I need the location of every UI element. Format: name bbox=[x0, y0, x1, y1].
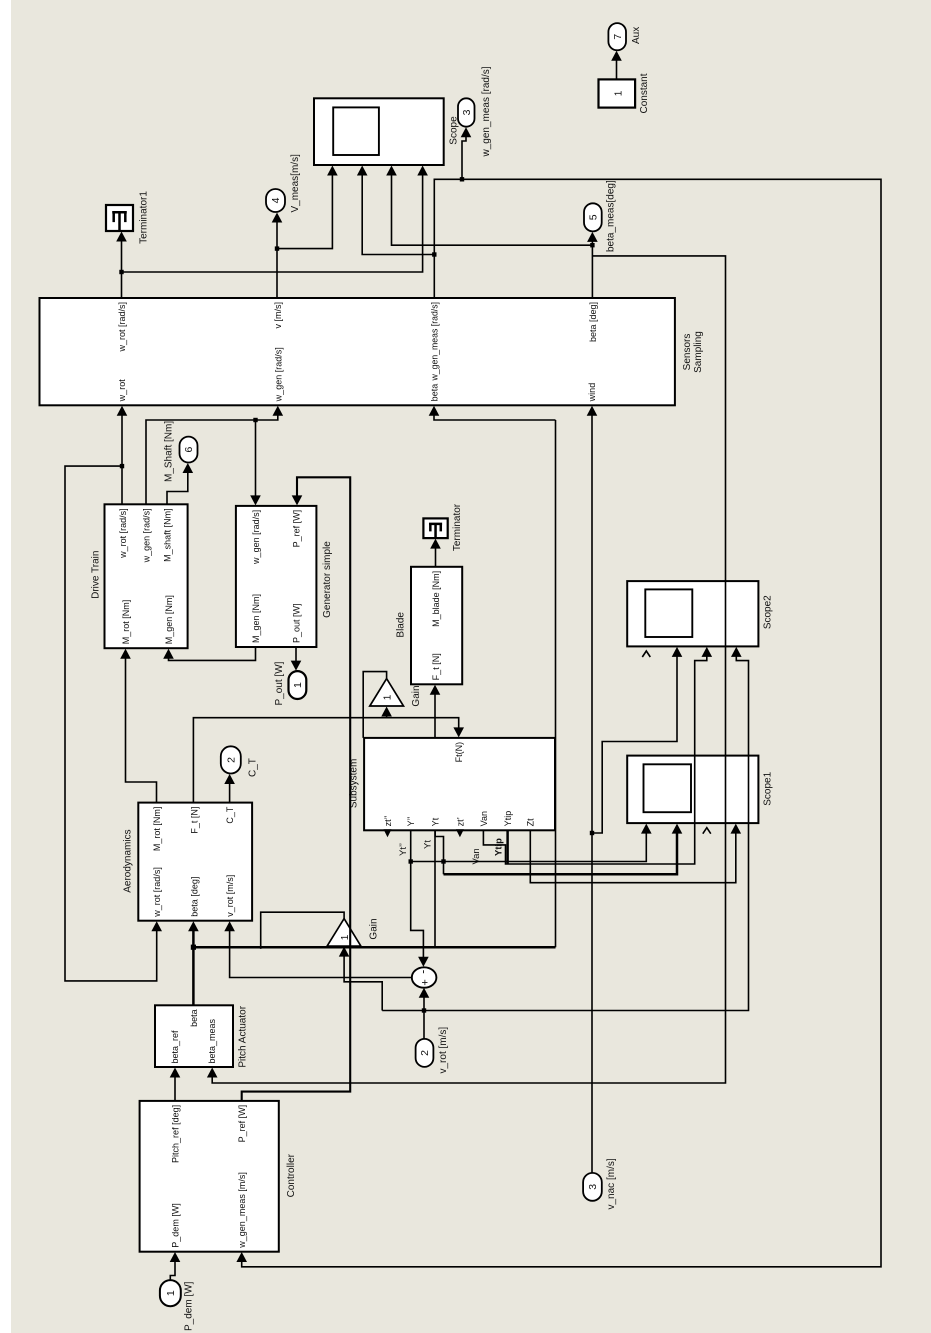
svg-text:M_rot [Nm]: M_rot [Nm] bbox=[152, 807, 162, 852]
svg-text:w_gen_meas [m/s]: w_gen_meas [m/s] bbox=[237, 1172, 247, 1249]
wire w_rot to Terminator1 bbox=[121, 236, 123, 299]
wire v_rot to gain bbox=[344, 951, 382, 1011]
arrowhead w_gen gen bbox=[250, 495, 261, 505]
svg-text:Ytip: Ytip bbox=[503, 811, 513, 827]
wire Ytip bold to scope1 in2 bbox=[444, 828, 678, 875]
block Blade bbox=[411, 567, 462, 685]
svg-text:w_gen_meas [rad/s]: w_gen_meas [rad/s] bbox=[430, 302, 440, 381]
svg-text:w_rot: w_rot bbox=[117, 379, 127, 403]
wire w_rot to Sensors bbox=[121, 410, 123, 504]
scope2 screen bbox=[645, 589, 692, 637]
svg-text:w_gen [rad/s]: w_gen [rad/s] bbox=[141, 508, 151, 563]
wire Zt bbox=[530, 828, 736, 883]
svg-text:Yt: Yt bbox=[423, 840, 434, 849]
svg-text:Pitch_ref [deg]: Pitch_ref [deg] bbox=[170, 1105, 180, 1163]
wire F_t net bbox=[193, 718, 458, 803]
white page margin strip bbox=[0, 0, 11, 1333]
arrowhead vrot aero bbox=[224, 921, 235, 931]
wire w_rot feedback loop bbox=[65, 466, 157, 981]
wire Constant to Aux bbox=[616, 55, 618, 80]
block Sensors Sampling bbox=[40, 298, 675, 405]
svg-text:Controller: Controller bbox=[286, 1153, 297, 1197]
arrowhead Zt scope1 bbox=[731, 824, 742, 834]
wire v_rot to scope2 bbox=[382, 651, 748, 1011]
junction w_rot loop bbox=[120, 464, 124, 468]
wire beta_meas to pitch bbox=[212, 256, 725, 1083]
svg-text:beta_meas[deg]: beta_meas[deg] bbox=[606, 180, 617, 252]
wire wind to scope2 bbox=[592, 651, 677, 833]
arrowhead port5 bbox=[587, 232, 598, 242]
svg-text:M_Shaft [Nm]: M_Shaft [Nm] bbox=[164, 421, 175, 482]
svg-text:Terminator: Terminator bbox=[452, 503, 463, 551]
unconnected Scope2 in1 bbox=[642, 651, 650, 657]
svg-text:w_gen_meas [rad/s]: w_gen_meas [rad/s] bbox=[481, 66, 492, 157]
junction beta bbox=[191, 945, 196, 950]
arrowhead port4 bbox=[272, 213, 283, 223]
svg-text:w_rot [rad/s]: w_rot [rad/s] bbox=[117, 302, 127, 353]
svg-text:w_rot [rad/s]: w_rot [rad/s] bbox=[152, 867, 162, 918]
wire beta to sensors underlay bbox=[555, 420, 557, 947]
svg-text:7: 7 bbox=[612, 34, 624, 40]
block Scope1 bbox=[627, 756, 758, 824]
svg-text:4: 4 bbox=[270, 197, 282, 203]
arrowhead beta sensors bbox=[429, 406, 440, 416]
wire gain2 output bbox=[261, 912, 344, 949]
svg-text:Pitch Actuator: Pitch Actuator bbox=[237, 1005, 248, 1067]
svg-text:Constant: Constant bbox=[639, 73, 650, 113]
inport 3 v_nac bbox=[583, 1173, 602, 1201]
svg-text:Generator simple: Generator simple bbox=[322, 541, 333, 618]
outport 3 w_gen_meas bbox=[458, 98, 475, 126]
arrowhead scope2 in4 bbox=[731, 647, 742, 657]
wire M_rot bbox=[126, 653, 157, 803]
wire P_dem bbox=[170, 1256, 175, 1280]
svg-text:v_nac [m/s]: v_nac [m/s] bbox=[606, 1158, 617, 1209]
scope screen bbox=[333, 107, 379, 155]
unconnected Scope1 in3 bbox=[703, 828, 711, 834]
svg-text:Ft(N): Ft(N) bbox=[454, 742, 464, 763]
svg-text:P_ref [W]: P_ref [W] bbox=[237, 1105, 247, 1143]
svg-text:1: 1 bbox=[383, 694, 394, 700]
svg-text:Yt’’: Yt’’ bbox=[398, 843, 409, 856]
junction v_rot bbox=[422, 1008, 426, 1012]
arrowhead w_rot aero bbox=[151, 921, 162, 931]
svg-text:C_T: C_T bbox=[225, 806, 235, 824]
wire Ytip stub bbox=[506, 830, 509, 864]
svg-text:Sampling: Sampling bbox=[693, 331, 704, 373]
svg-text:Drive Train: Drive Train bbox=[90, 551, 101, 599]
arrowhead w_gen sensors bbox=[273, 406, 284, 416]
wire Y'' to scope1 bbox=[411, 828, 647, 862]
wire wind v_nac bbox=[591, 410, 593, 1173]
svg-text:1: 1 bbox=[292, 682, 304, 688]
svg-text:beta_ref: beta_ref bbox=[170, 1030, 180, 1064]
svg-text:F_t [N]: F_t [N] bbox=[431, 653, 441, 680]
svg-text:Zt: Zt bbox=[526, 818, 536, 826]
arrowhead gain2 in bbox=[339, 947, 350, 957]
arrowhead M_rot bbox=[120, 649, 131, 659]
arrowhead scope in3 bbox=[386, 166, 397, 176]
gain Gain (F_t path) bbox=[370, 679, 404, 706]
scope1 screen bbox=[644, 764, 692, 812]
svg-text:M_gen [Nm]: M_gen [Nm] bbox=[251, 594, 261, 643]
svg-text:2: 2 bbox=[419, 1050, 431, 1056]
svg-text:P_ref [W]: P_ref [W] bbox=[291, 510, 301, 548]
arrowhead Ft subsystem bbox=[453, 727, 464, 737]
wire w_gen_meas net bbox=[242, 179, 881, 1267]
svg-text:F_t [N]: F_t [N] bbox=[190, 807, 200, 834]
wire M_gen bbox=[169, 647, 256, 660]
wire v to scope in1 bbox=[277, 170, 332, 249]
arrowhead scope in2 bbox=[357, 166, 368, 176]
svg-text:Scope: Scope bbox=[449, 116, 460, 145]
arrowhead terminator bbox=[430, 539, 441, 549]
arrowhead P_ref gen bbox=[292, 495, 303, 505]
svg-text:M_shaft [Nm]: M_shaft [Nm] bbox=[162, 508, 172, 562]
block Scope2 bbox=[627, 581, 758, 646]
wire v to port4 bbox=[276, 217, 278, 299]
svg-text:beta [deg]: beta [deg] bbox=[190, 877, 200, 917]
unconnected output zt'' bbox=[384, 829, 392, 837]
gain Gain (v_rot path) bbox=[327, 919, 361, 947]
wire blade F_t feed bbox=[434, 689, 436, 947]
svg-text:beta: beta bbox=[189, 1009, 199, 1027]
svg-text:1: 1 bbox=[614, 90, 625, 96]
svg-text:w_rot [rad/s]: w_rot [rad/s] bbox=[118, 508, 128, 559]
block Generator simple bbox=[236, 506, 317, 647]
junction w_gen_meas scope bbox=[432, 252, 436, 256]
wire sum output bbox=[230, 926, 412, 978]
arrowhead pitch beta_ref bbox=[170, 1068, 181, 1078]
svg-text:Aerodynamics: Aerodynamics bbox=[122, 829, 133, 892]
outport 6 M_Shaft bbox=[180, 437, 198, 463]
svg-text:2: 2 bbox=[225, 757, 237, 763]
svg-text:Gain: Gain bbox=[411, 685, 422, 706]
wire gain1 output to subsystem bbox=[363, 672, 386, 738]
terminator Terminator1 bbox=[106, 205, 133, 231]
svg-text:v_rot [m/s]: v_rot [m/s] bbox=[225, 875, 235, 917]
svg-text:6: 6 bbox=[183, 446, 195, 452]
wire beta_meas to scope in3 bbox=[392, 170, 593, 246]
svg-text:Gain: Gain bbox=[369, 918, 380, 939]
junction v bbox=[275, 246, 279, 250]
arrowhead controller w_gen_meas bbox=[236, 1252, 247, 1262]
arrowhead M_shaft bbox=[183, 463, 194, 473]
inport 1 P_dem bbox=[160, 1280, 181, 1306]
junction w_rot scope bbox=[119, 270, 123, 274]
arrowhead P_out bbox=[291, 661, 302, 671]
arrowhead scope in4 bbox=[417, 166, 428, 176]
svg-text:P_dem [W]: P_dem [W] bbox=[170, 1203, 180, 1248]
svg-text:P_out [W]: P_out [W] bbox=[291, 603, 301, 643]
svg-text:3: 3 bbox=[461, 109, 473, 115]
svg-text:Sensors: Sensors bbox=[682, 334, 693, 371]
arrowhead gain in bbox=[381, 707, 392, 717]
svg-text:Scope1: Scope1 bbox=[763, 771, 774, 805]
svg-text:P_out [W]: P_out [W] bbox=[274, 661, 285, 705]
wire P_out bbox=[295, 647, 297, 666]
svg-text:M_rot [Nm]: M_rot [Nm] bbox=[121, 600, 131, 645]
block Pitch Actuator bbox=[155, 1005, 233, 1067]
svg-text:M_blade [Nm]: M_blade [Nm] bbox=[431, 571, 441, 627]
wire beta bold bbox=[192, 926, 195, 1005]
wire Pitch_ref bbox=[174, 1072, 176, 1101]
svg-text:Blade: Blade bbox=[395, 612, 406, 638]
block Drive Train bbox=[105, 504, 188, 648]
arrowhead controller P_dem bbox=[170, 1252, 181, 1262]
arrowhead scope in1 bbox=[327, 166, 338, 176]
wire w_rot to scope in4 bbox=[122, 170, 423, 273]
inport 2 v_rot bbox=[416, 1039, 434, 1067]
svg-text:3: 3 bbox=[587, 1184, 599, 1190]
outport 2 C_T bbox=[221, 746, 241, 773]
junction Yt cross bbox=[441, 859, 445, 863]
svg-text:5: 5 bbox=[587, 214, 599, 220]
svg-text:V_meas[m/s]: V_meas[m/s] bbox=[290, 154, 301, 213]
svg-text:M_gen [Nm]: M_gen [Nm] bbox=[164, 595, 174, 644]
wire beta deg out bbox=[591, 236, 593, 298]
arrowhead beta aero bbox=[188, 921, 199, 931]
svg-text:zt’: zt’ bbox=[455, 817, 465, 826]
wire P_ref net bbox=[242, 477, 351, 1101]
block Aerodynamics bbox=[138, 803, 252, 921]
arrowhead M_gen bbox=[163, 649, 174, 659]
outport 1 P_out bbox=[289, 671, 307, 699]
wire v_rot to sum bbox=[423, 992, 425, 1039]
outport 4 V_meas bbox=[266, 189, 285, 212]
svg-text:v [m/s]: v [m/s] bbox=[273, 302, 283, 329]
svg-text:v_rot [m/s]: v_rot [m/s] bbox=[438, 1027, 449, 1074]
svg-text:Terminator1: Terminator1 bbox=[139, 191, 150, 244]
wire Van bbox=[483, 651, 706, 864]
arrowhead pitch beta_meas bbox=[207, 1068, 218, 1078]
wire port3 feed bbox=[462, 131, 466, 179]
sum junction bbox=[412, 967, 437, 987]
svg-text:P_dem [W]: P_dem [W] bbox=[184, 1281, 195, 1331]
arrowhead port3 bbox=[461, 127, 472, 137]
svg-text:Y’’: Y’’ bbox=[406, 816, 416, 826]
wire M_shaft bbox=[167, 468, 188, 505]
svg-text:1: 1 bbox=[165, 1290, 177, 1296]
outport 5 beta_meas bbox=[584, 203, 602, 231]
arrowhead sum plus bbox=[419, 988, 430, 998]
arrowhead scope2 in2 bbox=[672, 647, 683, 657]
junction beta_meas bbox=[590, 243, 594, 247]
arrowhead scope1 in1 bbox=[641, 824, 652, 834]
junction w_gen bbox=[253, 418, 257, 422]
block Constant bbox=[599, 79, 636, 107]
arrowhead scope2 in3 bbox=[702, 647, 713, 657]
wire w_gen_meas to scope in2 bbox=[362, 170, 434, 255]
wire Yt jog bbox=[435, 830, 443, 874]
arrowhead w_rot bbox=[117, 406, 128, 416]
svg-text:Scope2: Scope2 bbox=[763, 595, 774, 629]
block Controller bbox=[140, 1101, 279, 1252]
wire w_gen to Generator bbox=[255, 420, 257, 501]
svg-text:Ytip: Ytip bbox=[493, 838, 504, 856]
svg-text:zt’’: zt’’ bbox=[383, 815, 393, 826]
svg-text:Yt: Yt bbox=[431, 817, 441, 826]
block Subsystem bbox=[364, 738, 555, 830]
svg-text:Van: Van bbox=[479, 811, 489, 826]
arrowhead scope1 in2 bbox=[672, 824, 683, 834]
svg-text:beta_meas: beta_meas bbox=[207, 1018, 217, 1063]
terminator Terminator bbox=[423, 518, 447, 538]
svg-text:beta [deg]: beta [deg] bbox=[588, 302, 598, 342]
wire M_blade bbox=[435, 543, 437, 567]
svg-text:beta: beta bbox=[429, 384, 439, 402]
svg-text:-: - bbox=[415, 970, 429, 974]
svg-text:Aux: Aux bbox=[631, 27, 642, 44]
junction Y'' bbox=[409, 859, 413, 863]
wire w_gen bbox=[146, 410, 278, 504]
svg-text:w_gen [rad/s]: w_gen [rad/s] bbox=[273, 347, 283, 402]
wire beta branch down bbox=[193, 946, 555, 949]
arrowhead C_T port bbox=[224, 774, 235, 784]
svg-text:w_gen [rad/s]: w_gen [rad/s] bbox=[251, 510, 261, 565]
arrowhead terminator1 bbox=[116, 232, 127, 242]
junction w_gen_meas port3 bbox=[460, 177, 464, 181]
arrowhead blade Ft bbox=[430, 685, 441, 695]
arrowhead Aux bbox=[611, 51, 622, 61]
svg-text:+: + bbox=[420, 979, 432, 985]
wire beta to sensors bbox=[434, 410, 556, 420]
svg-text:wind: wind bbox=[587, 383, 597, 403]
svg-text:C_T: C_T bbox=[248, 758, 259, 777]
wire C_T bbox=[229, 778, 231, 803]
outport 7 Aux bbox=[608, 23, 626, 50]
arrowhead sum minus bbox=[418, 957, 429, 967]
wire F_t branch to gain bbox=[386, 711, 388, 718]
junction wind bbox=[590, 831, 594, 835]
arrowhead wind bbox=[587, 406, 598, 416]
block Scope bbox=[314, 98, 444, 165]
unconnected output zt' bbox=[456, 829, 464, 837]
wire Y'' out bbox=[411, 830, 424, 962]
